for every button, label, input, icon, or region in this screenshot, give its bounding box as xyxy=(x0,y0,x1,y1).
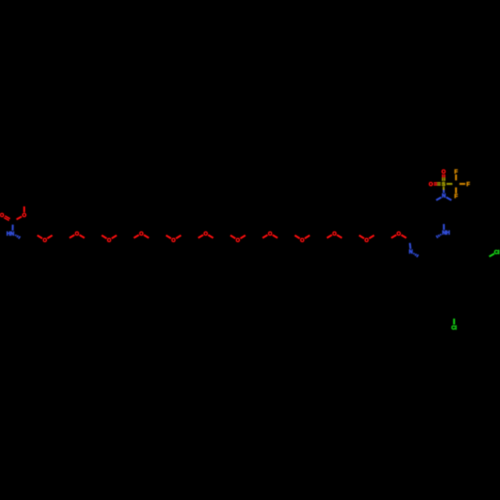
svg-text:HN: HN xyxy=(7,231,15,237)
bond stub F-C right xyxy=(459,183,465,185)
bond stub O6-C right xyxy=(208,235,213,238)
bond stub O11-C left xyxy=(359,235,364,238)
hashed bond stub N-CH2 xyxy=(15,235,20,239)
bond stub O1-C right xyxy=(47,235,52,238)
svg-text:O: O xyxy=(107,238,111,244)
bond stub Cl-C bottom phenyl xyxy=(453,319,455,325)
bond stub F-C bottom xyxy=(455,187,457,193)
bond stub O8-C right xyxy=(273,235,278,238)
svg-text:O: O xyxy=(22,213,26,219)
bond stub O4-C left xyxy=(134,235,139,238)
bond stub O11-C right xyxy=(369,235,374,238)
bond stub S-C (CF3) xyxy=(447,183,453,185)
svg-text:O: O xyxy=(204,231,208,237)
double bond stub S=O left (S half) xyxy=(437,183,440,185)
svg-text:O: O xyxy=(429,182,433,188)
svg-text:Cl: Cl xyxy=(451,325,457,331)
svg-text:O: O xyxy=(332,231,336,237)
bond stub O2-C right xyxy=(79,235,84,238)
double bond stub O=S top (O half) xyxy=(443,174,445,177)
bond stub O1-C left xyxy=(37,235,42,238)
bond stub N-C ring right xyxy=(446,197,451,200)
svg-text:O: O xyxy=(171,238,175,244)
bond stub O7-C right xyxy=(240,235,245,238)
bond stub N1-CH2 (chain) xyxy=(409,243,412,249)
double bond stub O=C xyxy=(4,216,10,221)
bond stub O12-C right xyxy=(401,235,406,238)
bond stub NH-C (piperidine C4) xyxy=(443,224,445,230)
bond stub O5-C right xyxy=(176,235,181,238)
svg-text:O: O xyxy=(43,238,47,244)
svg-text:NH: NH xyxy=(442,231,450,237)
bond stub O10-C right xyxy=(337,235,342,238)
bond stub O-CH3 (methyl) xyxy=(23,206,25,212)
svg-text:Cl: Cl xyxy=(494,250,500,256)
double bond stub O=S left (O half) xyxy=(434,183,437,185)
svg-text:O: O xyxy=(364,238,368,244)
bond stub O3-C right xyxy=(112,235,117,238)
bond stub F-C top xyxy=(455,175,457,181)
svg-text:O: O xyxy=(139,231,143,237)
svg-text:O: O xyxy=(300,238,304,244)
bond stub O9-C left xyxy=(295,235,300,238)
bond stub O-C (carbonyl) xyxy=(16,217,21,220)
svg-text:O: O xyxy=(0,213,4,219)
hashed bond stub NH-CH xyxy=(436,234,441,238)
double bond stub S=O top (S half) xyxy=(443,178,445,181)
bond stub O10-C left xyxy=(327,235,332,238)
bond stub O12-C left xyxy=(391,235,396,238)
svg-text:O: O xyxy=(268,231,272,237)
bond stub N-C ring left xyxy=(436,197,441,200)
bond stub N-C (carbonyl) xyxy=(12,225,14,231)
svg-text:N: N xyxy=(409,250,413,256)
bond stub O5-C left xyxy=(166,235,171,238)
bond stub O7-C left xyxy=(230,235,235,238)
svg-text:S: S xyxy=(442,182,446,188)
bond stub O2-C left xyxy=(69,235,74,238)
bond stub O9-C right xyxy=(305,235,310,238)
svg-text:O: O xyxy=(236,238,240,244)
bond stub O3-C left xyxy=(102,235,107,238)
hashed bond stub N1-CH xyxy=(414,253,419,257)
svg-text:N: N xyxy=(442,194,446,200)
bond stub O6-C left xyxy=(198,235,203,238)
bond stub O8-C left xyxy=(263,235,268,238)
bond stub O4-C right xyxy=(144,235,149,238)
svg-text:O: O xyxy=(75,231,79,237)
bond N-S (half blue, half olive) xyxy=(443,187,445,193)
svg-text:O: O xyxy=(397,231,401,237)
bond stub Cl-C right phenyl xyxy=(489,254,494,257)
